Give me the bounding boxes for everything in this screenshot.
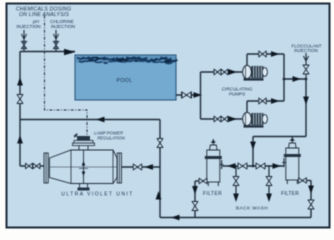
svg-text:POOL: POOL (116, 78, 132, 84)
svg-text:ON LINE ANALYSIS: ON LINE ANALYSIS (19, 12, 69, 18)
svg-text:ULTRA VIOLET UNIT: ULTRA VIOLET UNIT (61, 192, 134, 198)
svg-text:INJECTION: INJECTION (16, 24, 40, 29)
svg-text:INJECTION: INJECTION (51, 24, 75, 29)
svg-text:INJECTION: INJECTION (294, 48, 318, 53)
svg-text:BACK WASH: BACK WASH (236, 206, 268, 212)
svg-text:REGULATION: REGULATION (97, 136, 126, 141)
svg-text:FILTER: FILTER (281, 191, 299, 197)
svg-text:PUMPS: PUMPS (229, 92, 246, 97)
svg-text:FILTER: FILTER (203, 191, 222, 197)
